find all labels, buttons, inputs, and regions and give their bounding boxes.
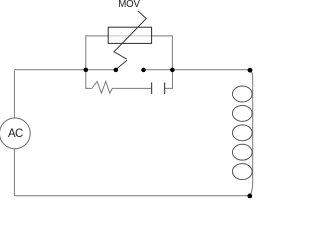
svg-text:AC: AC <box>8 128 23 140</box>
svg-text:MOV: MOV <box>118 0 140 10</box>
